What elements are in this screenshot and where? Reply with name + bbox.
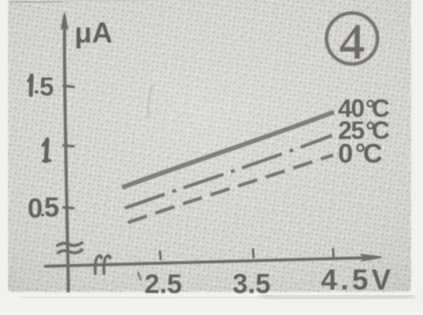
paper left edge line — [8, 0, 11, 291]
label 1 digit flag — [43, 140, 47, 146]
svg-text:3.5: 3.5 — [233, 268, 271, 299]
x tick 4.5 — [332, 249, 335, 257]
curve 25C dash-dot — [125, 136, 332, 209]
svg-text:5: 5 — [40, 72, 54, 102]
paper right edge line — [408, 22, 411, 290]
y-axis arrowhead — [61, 13, 67, 30]
svg-text:0: 0 — [28, 193, 43, 224]
x tick 2.5 — [159, 252, 162, 260]
paper top edge line faint part — [62, 0, 150, 2]
label 1.5 digit one flag — [28, 76, 31, 81]
stray mark left of 2.5 — [138, 273, 140, 279]
label 1.5 decimal point — [35, 90, 39, 93]
svg-text:4.5V: 4.5V — [321, 265, 394, 297]
curve 0C dashed — [128, 155, 333, 223]
x-axis break ff symbol right hook — [104, 256, 110, 274]
svg-text:5: 5 — [44, 192, 59, 223]
y-axis — [65, 18, 69, 291]
paper bottom edge shadow left — [20, 297, 260, 298]
paper top edge line dark part — [9, 2, 62, 3]
circled figure number 4 : circle — [327, 13, 378, 64]
faint scratch artifact — [148, 85, 152, 118]
y tick 1 — [64, 145, 74, 146]
svg-text:4: 4 — [340, 13, 365, 69]
x-axis break ff symbol left hook — [95, 256, 101, 274]
y-axis break squiggle lower — [58, 250, 82, 253]
label 1 digit foot — [44, 159, 51, 163]
x-axis — [46, 258, 367, 266]
y-axis break squiggle upper — [58, 243, 83, 246]
svg-text:2.5: 2.5 — [145, 269, 183, 299]
x-axis arrowhead — [362, 255, 382, 261]
label 1.5 digit one stem — [29, 76, 34, 96]
svg-text:μA: μA — [75, 18, 113, 50]
label 1 digit stem — [46, 140, 47, 162]
curve 40C solid — [122, 112, 334, 188]
paper bottom edge shadow right — [260, 296, 415, 298]
x tick 3.5 — [252, 250, 255, 258]
label 0.5 decimal point — [41, 213, 44, 216]
y tick 1.5 — [64, 86, 74, 87]
y tick 0.5 — [64, 206, 74, 209]
svg-text:0°C: 0°C — [338, 139, 383, 169]
